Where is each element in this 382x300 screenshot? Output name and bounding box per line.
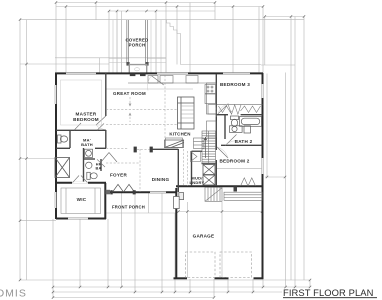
extension line x117 [116, 11, 118, 73]
front wall of house [105, 191, 176, 193]
porch column base right [145, 62, 148, 66]
bedroom2 door swing [217, 147, 228, 158]
extension line x215 [214, 3, 216, 20]
svg-text:BATH: BATH [81, 142, 93, 147]
WIC top wall [56, 182, 106, 184]
svg-text:BA: BA [96, 167, 102, 171]
svg-text:KITCHEN: KITCHEN [169, 132, 190, 137]
mud to garage door rect [174, 197, 180, 209]
bath2 bottom wall [221, 144, 263, 146]
extension line x56 [55, 3, 57, 73]
garage bottom wall segment 1 [174, 277, 188, 279]
pantry cabinet [165, 140, 185, 148]
extension line x263 bottom [262, 279, 264, 287]
extension line x135 bottom [134, 193, 136, 292]
front door leaf marks [130, 74, 136, 77]
extension line x108 bottom [107, 219, 109, 287]
garage door jamb post [234, 187, 238, 192]
dining cased opening post right [150, 147, 153, 153]
extension line x310 bottom [309, 280, 311, 287]
window right wall bedroom2 [262, 158, 263, 174]
porch column line left [127, 20, 148, 64]
extension line x233 [232, 7, 234, 74]
garage bottom wall segment 3 [254, 277, 264, 279]
top dimension line row 1 [56, 2, 215, 4]
wic door swing [73, 176, 88, 183]
svg-text:BEDROOM: BEDROOM [73, 117, 99, 122]
svg-text:PORCH: PORCH [129, 42, 146, 47]
svg-text:WIC: WIC [77, 197, 87, 202]
extension line x214 bottom [213, 279, 215, 298]
porch column left double line [126, 20, 128, 64]
ceiling slope arrows great room [129, 97, 132, 122]
ma toilet [58, 135, 68, 143]
porch column base left [126, 62, 129, 66]
stairs bottom wall [202, 163, 217, 165]
extension line x177 [176, 7, 178, 65]
bath2 left wall [224, 115, 226, 139]
extension line x166 [165, 3, 167, 73]
extension line x259 [258, 7, 260, 74]
windows in top wall (lighter gaps) [66, 72, 250, 74]
hf bath toilet [87, 172, 97, 179]
right eave horizontal [181, 64, 262, 66]
dining cased opening post left [134, 147, 137, 153]
front porch column [106, 190, 111, 195]
front entry alcove [129, 65, 146, 74]
right eave horizontal y65 [261, 64, 295, 66]
bath2 sink [230, 126, 251, 133]
left eave line [26, 20, 28, 280]
bath2 tub [240, 117, 262, 127]
dining top wall [152, 148, 178, 150]
roof steps top right [167, 20, 181, 65]
bedroom3 closet bottom wall right segment [241, 114, 263, 116]
WIC bottom wall [56, 218, 106, 220]
window wic bottom wall [68, 218, 88, 219]
master bedroom inner ceiling rect [61, 80, 102, 125]
left extension y220.7 [20, 220, 56, 222]
bedroom3 door swing [218, 104, 229, 115]
svg-text:FIRST FLOOR PLAN: FIRST FLOOR PLAN [283, 287, 374, 298]
foyer hall door swings [101, 153, 117, 163]
covered porch deck lines [109, 20, 166, 73]
extension line x121.5 [121, 11, 123, 73]
ma bath vanity wall [95, 147, 106, 149]
right eave vertical [303, 17, 305, 281]
window gap kitchen top wall [157, 72, 188, 74]
extension line x66 [65, 7, 67, 73]
bath2 toilet [231, 116, 239, 126]
porch step edges [109, 58, 129, 60]
bottom dimension line row 4 [53, 297, 213, 299]
left eave horizontal [20, 63, 109, 65]
bottom dimension line row 1 [20, 279, 310, 281]
dining right wall [177, 149, 179, 192]
bedroom3 closet bottom wall left segment [217, 114, 228, 116]
svg-text:BEDROOM 3: BEDROOM 3 [220, 82, 250, 87]
hf bath top wall [84, 158, 96, 160]
svg-text:FOYER: FOYER [110, 173, 128, 178]
master bath top wall [56, 129, 106, 131]
window gap bedroom3 top wall [223, 72, 250, 74]
porch deck board lines [112, 20, 114, 73]
bedroom2 ceiling line [217, 168, 262, 170]
extension line x190 [189, 3, 191, 74]
mud room left wall [191, 151, 193, 186]
hall/bedroom wall right wing [215, 74, 217, 150]
extension line x109 [108, 11, 110, 73]
porch column right double line [145, 20, 147, 64]
window right wall bedroom3 [262, 84, 263, 98]
great room corner door swing [147, 76, 163, 91]
ma bath door swings [74, 123, 105, 167]
kitchen island [178, 97, 195, 129]
left wall [55, 73, 57, 219]
window on left wall master [55, 85, 57, 104]
mud top wall [192, 150, 203, 152]
foyer/great room dashed cased opening [106, 75, 216, 192]
right dimension line 3 [294, 17, 296, 288]
title underline [283, 297, 377, 299]
svg-text:GREAT ROOM: GREAT ROOM [113, 91, 146, 96]
master bedroom right wall [105, 73, 107, 116]
extension line x253 bottom [252, 279, 254, 292]
window gap master top wall [66, 72, 96, 74]
garage bottom wall segment 2 [215, 277, 229, 279]
garage interior extension line 1 [186, 202, 188, 278]
garage interior dimension line [177, 211, 263, 213]
front wall post left [110, 190, 112, 194]
garage interior extension line 2 [221, 202, 223, 278]
extension line x96 [95, 3, 97, 21]
extension line x148.5 porch [148, 193, 150, 213]
hf bath right wall [100, 159, 102, 171]
bottom dimension line row 3 [53, 291, 282, 293]
right dimension line 1 [285, 73, 287, 288]
extension line x156 [155, 11, 157, 73]
top dimension line row 3 [109, 10, 215, 12]
stair direction arrow [204, 137, 207, 159]
kitchen lower cabinets left [166, 138, 205, 149]
bottom dimension line row 2 [53, 286, 310, 288]
extension line x175 bottom [174, 213, 176, 292]
master bedroom door swing [96, 116, 106, 130]
toilet room wall vertical [69, 131, 71, 148]
top wall [55, 72, 263, 74]
svg-text:DINING: DINING [152, 177, 170, 182]
svg-text:BEDROOM 2: BEDROOM 2 [219, 159, 249, 164]
extension line x80 bottom [79, 219, 81, 287]
garage workbench [224, 192, 262, 200]
ma vanity [85, 149, 93, 157]
left extension y158.5 [20, 158, 56, 160]
garage left wall [175, 188, 177, 279]
left dimension line [19, 20, 21, 280]
right dimension line 2 [290, 17, 292, 281]
extension line x162 bottom [161, 193, 163, 292]
island hatch [181, 106, 194, 118]
hf bath sink [86, 162, 92, 168]
gable line left wing [55, 57, 166, 59]
right interior extension x267 [266, 74, 268, 178]
right top dimension line [265, 16, 304, 18]
hf bath left wall [83, 148, 85, 183]
great room ceiling line [106, 88, 193, 90]
bath2 door swing [226, 135, 241, 146]
svg-text:BATH 2: BATH 2 [235, 139, 253, 144]
toilet room wall horizontal [56, 147, 70, 149]
window front wall dining [150, 192, 166, 193]
kitchen right counter [205, 83, 216, 137]
right eave top vertical [264, 17, 266, 66]
dimension tick marks [19, 1, 311, 298]
garage top wall [176, 185, 263, 187]
entry step inner [134, 68, 139, 71]
svg-text:LNDRY: LNDRY [190, 180, 205, 185]
washer dryer [203, 165, 215, 186]
top dimension line row 2 [56, 6, 263, 8]
svg-text:MASTER: MASTER [76, 112, 97, 117]
right wall [262, 73, 264, 279]
porch sidewalk line left of garage [106, 212, 176, 214]
ma shower [55, 158, 70, 178]
porch side line [99, 58, 101, 73]
dimension and roof line work [20, 3, 310, 298]
wic door gap [72, 182, 88, 184]
kitchen counters top [128, 76, 216, 84]
bath hall wall [105, 130, 107, 148]
roof ridge line [20, 19, 304, 21]
front wall post right [133, 190, 136, 194]
extension line x121.5 bottom [121, 193, 123, 287]
right dimension arrow line y177 [265, 176, 285, 178]
extension line x53 bottom [52, 219, 54, 298]
svg-text:GARAGE: GARAGE [193, 234, 215, 239]
window on dining bay wall [179, 193, 184, 200]
svg-text:OMIS: OMIS [0, 288, 27, 300]
extension line x190 bottom [189, 279, 191, 292]
window on left wall wic [55, 192, 57, 208]
WIC right wall [104, 183, 106, 219]
bedroom2 closet hangers [241, 178, 256, 186]
svg-text:FRONT PORCH: FRONT PORCH [112, 205, 145, 210]
extension line x228 bottom [227, 279, 229, 292]
extension line x263 top [262, 7, 264, 74]
